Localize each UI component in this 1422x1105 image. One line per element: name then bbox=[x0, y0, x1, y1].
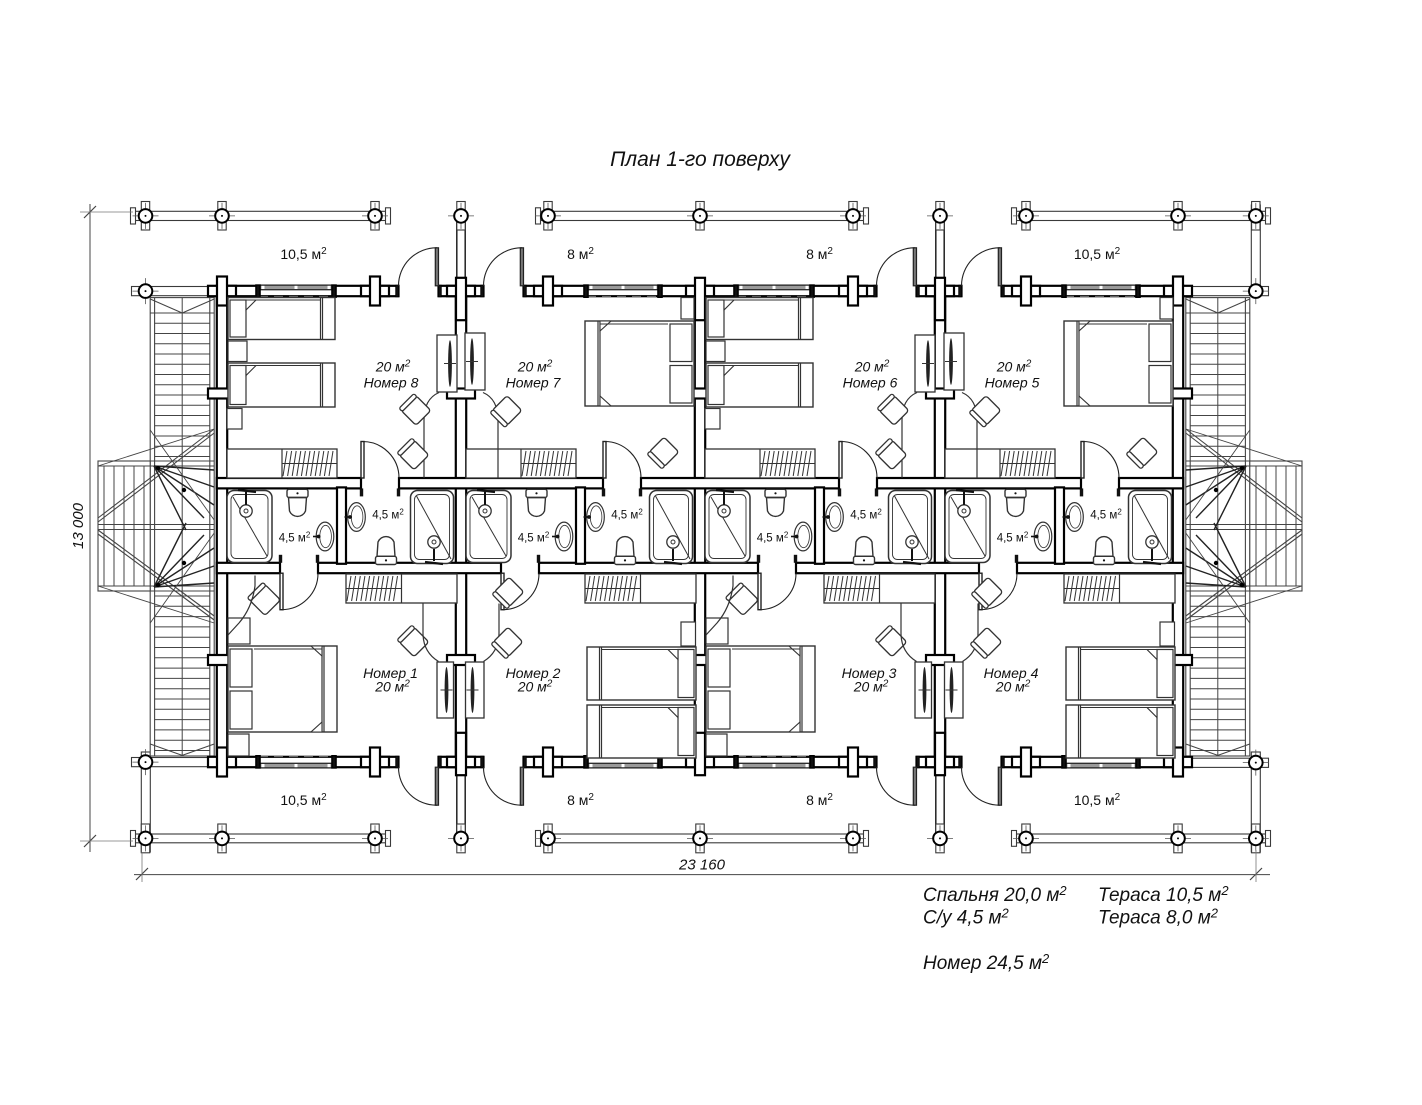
svg-text:С/у 4,5 м2: С/у 4,5 м2 bbox=[923, 906, 1010, 929]
svg-text:10,5 м2: 10,5 м2 bbox=[1074, 246, 1121, 262]
svg-text:Тераса 8,0 м2: Тераса 8,0 м2 bbox=[1098, 906, 1219, 929]
svg-text:13 000: 13 000 bbox=[70, 502, 87, 549]
svg-text:Номер 24,5 м2: Номер 24,5 м2 bbox=[923, 951, 1050, 974]
svg-text:План 1-го поверху: План 1-го поверху bbox=[610, 148, 791, 171]
svg-text:Номер 5: Номер 5 bbox=[985, 375, 1040, 391]
svg-text:Тераса 10,5 м2: Тераса 10,5 м2 bbox=[1098, 883, 1229, 906]
svg-text:Номер 7: Номер 7 bbox=[506, 375, 562, 391]
svg-text:10,5 м2: 10,5 м2 bbox=[280, 792, 327, 808]
svg-text:Номер 8: Номер 8 bbox=[364, 375, 419, 391]
svg-text:Спальня 20,0 м2: Спальня 20,0 м2 bbox=[923, 883, 1067, 906]
svg-text:Номер 6: Номер 6 bbox=[843, 375, 898, 391]
svg-text:10,5 м2: 10,5 м2 bbox=[280, 246, 327, 262]
svg-text:23 160: 23 160 bbox=[678, 857, 726, 874]
svg-text:10,5 м2: 10,5 м2 bbox=[1074, 792, 1121, 808]
